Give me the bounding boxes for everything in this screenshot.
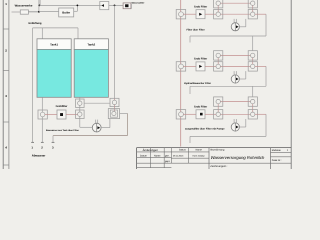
group 1 wire exit down	[255, 13, 266, 15]
svg-text:Datei Nr.:: Datei Nr.:	[272, 159, 282, 162]
wire upper cross line	[84, 102, 110, 104]
valve V3 tank2 lower	[78, 112, 82, 116]
svg-text:Tank1: Tank1	[50, 43, 58, 47]
pump P1	[95, 120, 97, 124]
sheet background	[0, 0, 300, 169]
wire V5 exit to waste line	[120, 112, 128, 114]
group 1 wire upper cross	[218, 2, 253, 4]
group 3 wire stack right vertical	[252, 102, 254, 115]
tank Tank2	[74, 39, 108, 50]
group 3 valve SC3 upper-right	[251, 99, 255, 103]
title block row y152 left	[137, 151, 209, 153]
group 3 wire lower cross	[218, 113, 253, 115]
svg-text:Maßstab: Maßstab	[272, 149, 282, 152]
svg-text:Wasserzähler: Wasserzähler	[132, 1, 145, 4]
valve V1 tank1 outlet	[40, 112, 45, 117]
node junction tank feed	[114, 5, 116, 7]
title block col line x164	[163, 148, 165, 168]
wire drain 3	[52, 136, 54, 143]
wire tank1 outlet / drain 2	[41, 97, 43, 142]
group 3 wire filter to stack	[205, 113, 218, 115]
sheet right edge	[290, 0, 292, 169]
group 1 wire stack left vertical	[217, 3, 219, 14]
title block row y167 left	[137, 167, 172, 169]
frame tick y122	[3, 121, 9, 123]
group 2 wire stack left vertical	[217, 55, 219, 66]
group 2 wire loop return	[190, 85, 266, 87]
group 3 wire loop return	[190, 135, 266, 137]
group 1 valve SC1 upper-right	[251, 1, 255, 5]
svg-text:Zeichnungsnr.:: Zeichnungsnr.:	[210, 165, 227, 168]
group 1 valve SD1 lower-right	[251, 12, 255, 16]
node junction boiler branch	[38, 11, 40, 13]
wire boiler connector up	[74, 10, 78, 12]
frame tick y165	[3, 164, 9, 166]
group 2 wire loop stub	[189, 86, 191, 94]
wire junction to boiler	[39, 11, 59, 13]
svg-text:ausgewählte über Filter mit Pu: ausgewählte über Filter mit Pumpe	[185, 128, 225, 131]
svg-text:Name: Name	[154, 154, 161, 157]
group 2 wire exit down	[255, 65, 266, 67]
group 2 wire lower cross	[218, 65, 253, 67]
meter FI1 inlet instrument	[20, 10, 28, 14]
wire riser from top	[38, 0, 40, 12]
valve V4 feed upper	[114, 98, 116, 111]
svg-text:Bauwasser aus Tank über Filter: Bauwasser aus Tank über Filter	[46, 129, 79, 132]
node junction boiler-header	[77, 5, 79, 7]
group 1 wire pump outlet	[239, 26, 245, 28]
group 2 wire filter to stack	[205, 65, 218, 67]
frame tick y70	[3, 70, 9, 72]
frame left border line	[2, 0, 4, 169]
wire riser second strand	[39, 0, 41, 5]
svg-text:Grob Filter: Grob Filter	[194, 58, 207, 61]
svg-text:Datum: Datum	[179, 149, 186, 152]
wire drain 1 from vent	[32, 28, 34, 142]
group 3 wire pump outlet	[239, 126, 245, 128]
svg-text:Grob Filter: Grob Filter	[194, 105, 207, 108]
svg-text:Wasserwerke: Wasserwerke	[15, 4, 33, 8]
valve V5 feed lower	[112, 111, 116, 115]
frame tick y29	[3, 28, 9, 30]
group 2 wire feed to next group	[252, 86, 254, 97]
svg-text:Name: Name	[196, 149, 203, 152]
group 1 wire loop return	[190, 35, 266, 37]
wire down to tank valves	[114, 5, 116, 98]
title block right col rows	[271, 151, 292, 153]
group 2 pump GP2	[233, 71, 235, 75]
svg-text:Filter über Filter: Filter über Filter	[187, 28, 205, 31]
svg-text:Entlüftung: Entlüftung	[29, 22, 42, 25]
group 2 wire upper cross	[218, 54, 253, 56]
group 2 wire valve to filter	[183, 65, 196, 67]
title block col line x270	[270, 148, 272, 169]
group 1 wire stack right vertical	[252, 3, 254, 14]
drain tick 1	[31, 141, 34, 143]
wire pump outlet to V5	[101, 127, 110, 129]
wire vent to tank2	[77, 28, 79, 39]
title block col line x171	[170, 148, 172, 164]
title block col line x204	[208, 148, 210, 169]
svg-text:Datum: Datum	[140, 154, 147, 157]
group 3 wire upper cross	[218, 101, 253, 103]
frame margin inner line	[8, 0, 10, 169]
group 3 pump GP3	[233, 119, 235, 123]
svg-text:Abwasser: Abwasser	[32, 153, 47, 157]
wire V3 down to pump	[79, 119, 81, 128]
wire hot riser	[180, 0, 182, 147]
svg-text:Hans Tastatur: Hans Tastatur	[193, 154, 206, 157]
svg-text:29.11.2013: 29.11.2013	[173, 154, 184, 157]
svg-text:Grobfilter: Grobfilter	[56, 105, 68, 108]
title block row y163 full	[137, 162, 292, 164]
title block row y157 left	[137, 157, 172, 159]
group 2 valve SC2 upper-right	[251, 53, 255, 57]
node junction header start	[39, 5, 41, 7]
wire vent header	[33, 27, 78, 29]
svg-text:Tank2: Tank2	[87, 43, 95, 47]
group 2 valve GV2 on riser	[179, 64, 184, 69]
wire supply inlet	[12, 11, 21, 13]
group 2 wire pump outlet	[239, 78, 245, 80]
group 1 wire lower cross	[218, 13, 253, 15]
group 1 valve SA1 upper-left	[216, 1, 220, 5]
svg-text:Boiler: Boiler	[62, 10, 71, 14]
title block col line x150	[149, 148, 151, 168]
group 1 valve GV1 on riser	[179, 12, 184, 17]
group 3 wire loop stub	[189, 136, 191, 143]
group 3 valve SD3 lower-right	[251, 112, 255, 116]
group 1 pump GP1	[233, 19, 235, 23]
wire meter to junction	[28, 11, 39, 13]
svg-text:Grob Filter: Grob Filter	[194, 5, 207, 8]
wire vent to tank1	[41, 28, 43, 39]
wire filter to valve V3	[66, 114, 78, 116]
wire meter stub	[130, 4, 132, 9]
wire valve V1 to filter	[45, 114, 57, 116]
valve V0 on header	[100, 2, 109, 10]
wire waste collector line	[53, 135, 127, 137]
title block outer top	[137, 147, 292, 149]
valve V2 tank2 upper	[79, 97, 81, 118]
svg-text:Wasserversorgung Rohmilch: Wasserversorgung Rohmilch	[211, 155, 265, 160]
title block outer left	[136, 148, 138, 169]
svg-text:gepr.: gepr.	[165, 160, 170, 163]
group 1 wire valve to filter	[183, 13, 196, 15]
water meter M1	[123, 3, 131, 9]
group 3 valve SA3 upper-left	[216, 99, 220, 103]
svg-text:gez.: gez.	[165, 154, 170, 157]
group 2 valve SA2 upper-left	[216, 53, 220, 57]
group 1 wire filter to stack	[205, 13, 218, 15]
drain tick 2	[41, 141, 44, 143]
group 3 wire valve to filter	[183, 113, 196, 115]
wire main supply header	[39, 4, 123, 6]
tank Tank1	[37, 39, 71, 50]
group 3 wire exit down	[255, 113, 266, 115]
svg-text:Bezeichnung: Bezeichnung	[211, 149, 225, 152]
group 2 wire stack right vertical	[252, 55, 254, 66]
group 2 valve SB2 lower-left	[216, 64, 220, 68]
group 3 valve SB3 lower-left	[216, 112, 220, 116]
group 2 valve SD2 lower-right	[251, 64, 255, 68]
group 3 wire stack left vertical	[217, 102, 219, 115]
svg-text:Änderungen: Änderungen	[143, 148, 159, 152]
boiler B1	[59, 8, 74, 17]
svg-text:Hydraulikwascher Filter: Hydraulikwascher Filter	[184, 82, 211, 85]
group 1 valve SB1 lower-left	[216, 12, 220, 16]
drain tick 3	[52, 141, 55, 143]
group 1 wire feed to next group	[252, 36, 254, 51]
group 1 wire loop stub	[189, 36, 191, 43]
title block col line x189	[188, 148, 190, 164]
group 3 valve GV3 on riser	[179, 112, 184, 117]
